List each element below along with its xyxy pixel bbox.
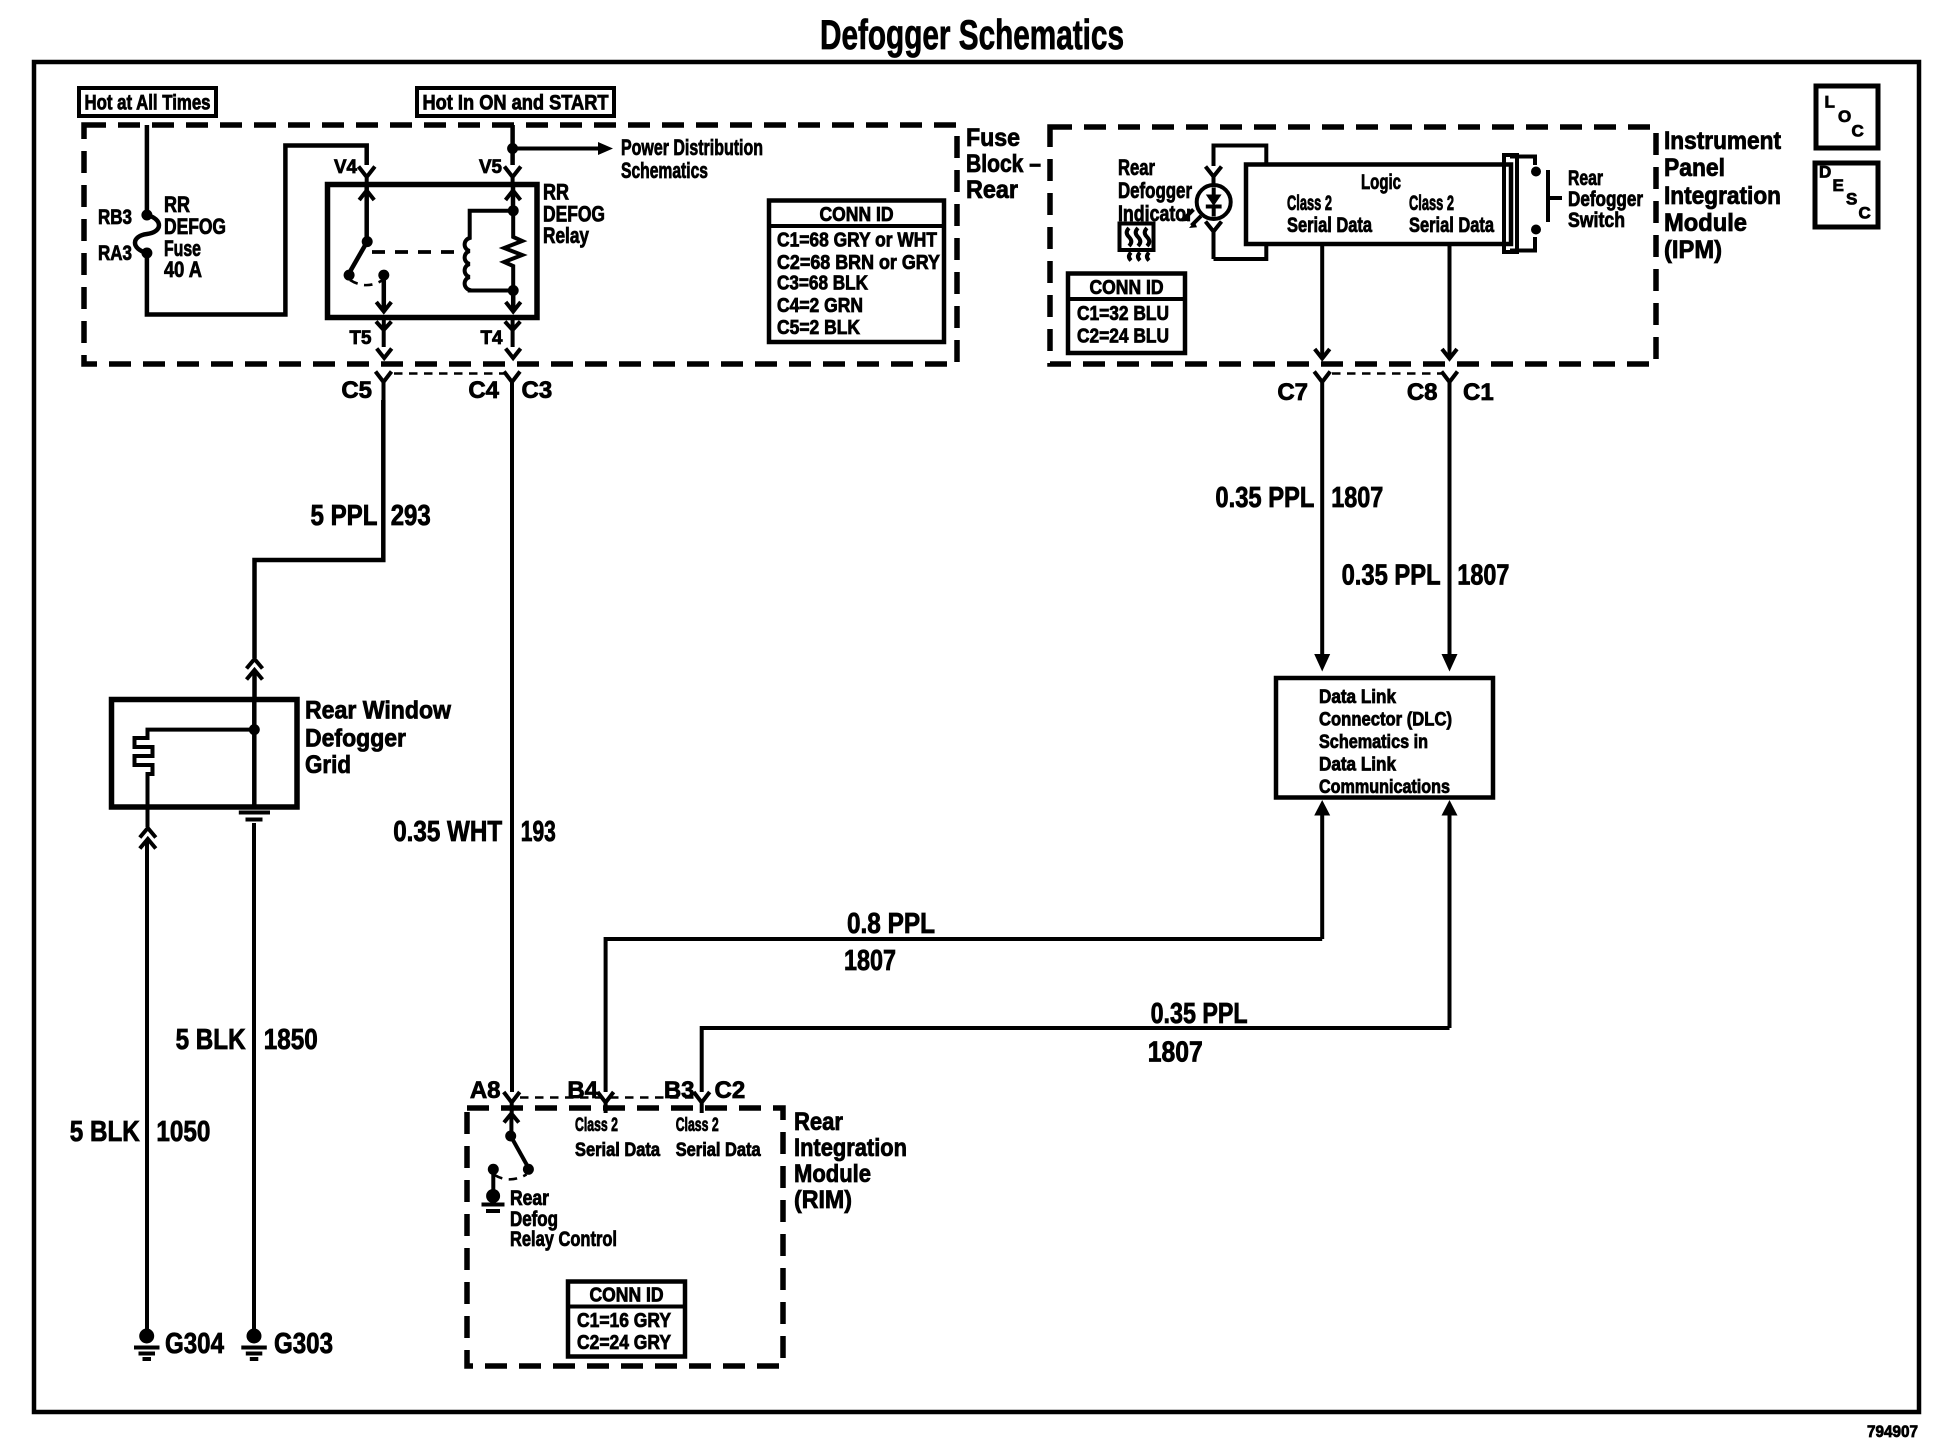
wire LED branch bottom xyxy=(1214,245,1267,259)
wire ignition feed V5 xyxy=(510,125,515,165)
inline connector on 5 BLK 1050 wire xyxy=(140,828,156,849)
fuse RR DEFOG 40 A xyxy=(135,215,159,253)
svg-text:Serial Data: Serial Data xyxy=(676,1140,761,1161)
svg-text:S: S xyxy=(1846,190,1857,209)
label Fuse Block - Rear xyxy=(966,124,1041,204)
connector A8 xyxy=(470,1077,520,1113)
svg-text:Serial Data: Serial Data xyxy=(1287,214,1372,237)
svg-text:Rear: Rear xyxy=(1118,155,1155,180)
label 0.35 PPL 1807 (mid) xyxy=(1342,560,1510,592)
ground G304 xyxy=(134,1328,224,1360)
svg-text:1807: 1807 xyxy=(1148,1037,1203,1069)
svg-text:L: L xyxy=(1825,93,1835,112)
node RA3 xyxy=(141,248,152,259)
label 0.8 PPL 1807 xyxy=(844,908,935,977)
connector B3 / C2 xyxy=(664,1077,745,1113)
wire grid to inline connector xyxy=(146,807,150,827)
label Rear Defogger Indicator xyxy=(1118,155,1193,226)
svg-text:A8: A8 xyxy=(470,1077,501,1104)
svg-text:Logic: Logic xyxy=(1361,171,1401,194)
label Class 2 Serial Data (RIM right) xyxy=(676,1115,761,1161)
label Power Distribution Schematics xyxy=(621,135,763,183)
svg-text:0.8 PPL: 0.8 PPL xyxy=(847,908,935,940)
svg-text:Rear Window: Rear Window xyxy=(305,697,452,725)
svg-text:C: C xyxy=(1852,122,1864,141)
DESC reference box xyxy=(1815,163,1878,228)
svg-text:G304: G304 xyxy=(165,1328,224,1360)
svg-text:Integration: Integration xyxy=(1664,182,1781,210)
svg-text:C5=2 BLK: C5=2 BLK xyxy=(777,317,860,339)
svg-text:C1=16 GRY: C1=16 GRY xyxy=(577,1310,672,1332)
svg-text:O: O xyxy=(1838,107,1851,126)
svg-text:293: 293 xyxy=(391,500,431,532)
label 5 PPL 293 xyxy=(311,500,431,532)
grid element xyxy=(135,699,260,807)
svg-text:Data Link: Data Link xyxy=(1319,687,1396,708)
CONN ID table (fuse block) xyxy=(769,201,944,343)
connector link A8-B4-B3 (dashed) xyxy=(520,1096,694,1099)
svg-text:C2=24 GRY: C2=24 GRY xyxy=(577,1332,672,1354)
Instrument Panel Integration Module (IPM) dashed enclosure xyxy=(1050,127,1656,364)
relay resistor xyxy=(504,211,522,291)
node relay coil top xyxy=(508,205,519,216)
connector link C5-C4 (dashed) xyxy=(394,372,504,375)
label Rear Integration Module (RIM) xyxy=(794,1108,907,1214)
svg-text:Grid: Grid xyxy=(305,751,351,779)
svg-text:C: C xyxy=(1859,204,1871,223)
RIM rear defog relay control driver xyxy=(488,1114,534,1180)
svg-text:E: E xyxy=(1833,176,1844,195)
svg-text:C1=68 GRY or WHT: C1=68 GRY or WHT xyxy=(777,230,937,252)
wire 5 BLK 1850 (grid to G303) xyxy=(252,823,256,1330)
inline connector on 5 PPL wire xyxy=(247,659,263,699)
pin V4 xyxy=(334,157,375,185)
relay coil xyxy=(465,211,514,291)
svg-text:Relay Control: Relay Control xyxy=(510,1228,617,1251)
svg-text:Class 2: Class 2 xyxy=(1409,192,1454,215)
wire 0.35 PPL riser into DLC xyxy=(1442,800,1458,1028)
svg-text:C1: C1 xyxy=(1463,379,1494,406)
pin V5 xyxy=(479,157,521,185)
CONN ID table (RIM) xyxy=(568,1282,685,1357)
relay label RR DEFOG Relay xyxy=(543,180,605,249)
svg-text:RA3: RA3 xyxy=(98,242,132,265)
connector C5 xyxy=(341,372,391,405)
svg-text:Rear: Rear xyxy=(1568,167,1603,190)
svg-text:(RIM): (RIM) xyxy=(794,1186,852,1214)
svg-text:794907: 794907 xyxy=(1867,1422,1918,1441)
svg-text:Rear: Rear xyxy=(794,1108,843,1136)
svg-text:Rear: Rear xyxy=(510,1187,549,1210)
connector C7 xyxy=(1277,372,1330,407)
wire 0.35 PPL 1807 (C2 to DLC) xyxy=(702,1028,1450,1092)
label Hot at All Times xyxy=(79,88,216,116)
svg-text:Communications: Communications xyxy=(1319,777,1450,798)
wire LED branch top xyxy=(1214,146,1267,167)
svg-text:C1=32 BLU: C1=32 BLU xyxy=(1077,303,1169,325)
pin T4 xyxy=(481,318,521,359)
rear defogger switch lever xyxy=(1548,170,1562,222)
RIM internal ground xyxy=(482,1169,505,1211)
svg-text:Defogger: Defogger xyxy=(305,725,406,753)
svg-text:T5: T5 xyxy=(350,328,372,349)
svg-text:CONN ID: CONN ID xyxy=(820,204,894,226)
svg-text:C2: C2 xyxy=(715,1077,746,1104)
LOC reference box xyxy=(1816,86,1878,148)
connector C4 / C3 xyxy=(468,372,552,405)
svg-text:B4: B4 xyxy=(567,1077,598,1104)
svg-text:0.35 PPL: 0.35 PPL xyxy=(1151,998,1248,1030)
svg-text:Integration: Integration xyxy=(794,1134,907,1162)
wire class 2 serial data left pin xyxy=(1315,244,1330,359)
connector pin below LED xyxy=(1206,222,1222,260)
svg-text:0.35 PPL: 0.35 PPL xyxy=(1342,560,1441,592)
label Rear Window Defogger Grid xyxy=(305,697,452,780)
svg-text:Connector (DLC): Connector (DLC) xyxy=(1319,710,1452,731)
label 0.35 WHT 193 xyxy=(393,816,556,848)
logic box U1 xyxy=(1246,165,1511,245)
svg-text:Schematics in: Schematics in xyxy=(1319,732,1428,753)
CONN ID table (IPM) xyxy=(1068,274,1185,354)
svg-text:1807: 1807 xyxy=(1331,482,1383,514)
rear defogger switch connector xyxy=(1504,155,1541,252)
svg-text:1807: 1807 xyxy=(1457,560,1509,592)
svg-text:C2=68 BRN or GRY: C2=68 BRN or GRY xyxy=(777,252,941,274)
wire 0.35 PPL 1807 (C7 to DLC) xyxy=(1314,400,1330,672)
relay RR DEFOG box xyxy=(328,185,538,318)
svg-text:0.35 PPL: 0.35 PPL xyxy=(1215,482,1314,514)
grid ground tab xyxy=(239,813,270,820)
svg-text:Defogger: Defogger xyxy=(1568,188,1643,211)
svg-text:Class 2: Class 2 xyxy=(575,1115,618,1136)
svg-text:1850: 1850 xyxy=(264,1024,318,1056)
svg-text:1050: 1050 xyxy=(156,1116,210,1148)
label Rear Defogger Switch xyxy=(1568,167,1643,232)
svg-text:D: D xyxy=(1819,163,1831,182)
connector pin above LED xyxy=(1206,167,1222,186)
wire class 2 serial data right pin xyxy=(1442,244,1457,359)
svg-text:T4: T4 xyxy=(481,328,503,349)
wire 0.35 PPL 1807 (C8 to DLC) xyxy=(1442,400,1458,672)
svg-text:Module: Module xyxy=(794,1160,871,1188)
svg-text:Hot at All Times: Hot at All Times xyxy=(85,92,211,115)
svg-text:C4=2 GRN: C4=2 GRN xyxy=(777,295,863,317)
svg-text:Switch: Switch xyxy=(1568,209,1625,232)
svg-text:5 PPL: 5 PPL xyxy=(311,500,378,532)
label Instrument Panel Integration Module (IPM) xyxy=(1664,127,1782,264)
svg-text:B3: B3 xyxy=(664,1077,695,1104)
data link connector DLC box xyxy=(1276,678,1493,798)
svg-text:Schematics: Schematics xyxy=(621,158,708,183)
relay pin T4 internal xyxy=(506,291,521,312)
svg-text:C3: C3 xyxy=(522,377,553,404)
svg-text:Power Distribution: Power Distribution xyxy=(621,135,763,160)
LED indicator U-lamp xyxy=(1197,185,1231,219)
relay switch arm xyxy=(344,186,392,312)
svg-text:Instrument: Instrument xyxy=(1664,127,1782,155)
svg-text:Defogger Schematics: Defogger Schematics xyxy=(820,11,1124,58)
svg-text:C8: C8 xyxy=(1407,379,1438,406)
svg-text:V5: V5 xyxy=(479,157,502,178)
svg-text:C2=24 BLU: C2=24 BLU xyxy=(1077,326,1169,348)
fuse value label RR DEFOG Fuse 40 A xyxy=(164,192,226,282)
svg-text:Serial Data: Serial Data xyxy=(1409,214,1494,237)
svg-text:(IPM): (IPM) xyxy=(1664,236,1722,264)
wire 5 PPL 293 (C5 to grid) xyxy=(255,400,384,658)
ground G303 xyxy=(241,1328,333,1360)
svg-text:CONN ID: CONN ID xyxy=(1090,277,1164,299)
svg-text:C4: C4 xyxy=(468,377,499,404)
svg-text:Module: Module xyxy=(1664,209,1747,237)
Fuse Block - Rear dashed enclosure xyxy=(84,125,957,364)
node RB3 xyxy=(141,210,152,221)
wire to power distribution schematics xyxy=(513,147,598,151)
svg-text:Class 2: Class 2 xyxy=(676,1115,719,1136)
wire 0.8 PPL 1807 (B4 to DLC) xyxy=(606,939,1323,1092)
label Class 2 Serial Data (right) xyxy=(1409,192,1494,237)
wire fuse RA3 to relay pin V4 xyxy=(147,146,367,315)
rear window defogger grid box xyxy=(112,700,298,808)
svg-text:Defogger: Defogger xyxy=(1118,178,1192,203)
connector B4 xyxy=(567,1077,613,1113)
svg-text:40 A: 40 A xyxy=(164,257,202,282)
svg-text:G303: G303 xyxy=(274,1328,333,1360)
wire 5 BLK 1050 (to G304) xyxy=(145,841,149,1330)
connector C8 / C1 xyxy=(1407,372,1494,407)
wire 0.35 WHT 193 (C3 to A8) xyxy=(510,400,514,1092)
svg-text:Class 2: Class 2 xyxy=(1287,192,1332,215)
svg-text:0.35 WHT: 0.35 WHT xyxy=(393,816,502,848)
svg-text:Serial Data: Serial Data xyxy=(575,1140,660,1161)
svg-text:Relay: Relay xyxy=(543,223,590,248)
label Class 2 Serial Data (left) xyxy=(1287,192,1372,237)
wire hot-at-all-times feed to fuse xyxy=(145,125,150,212)
svg-text:Rear: Rear xyxy=(966,176,1018,204)
svg-text:C7: C7 xyxy=(1277,379,1308,406)
svg-text:193: 193 xyxy=(521,816,556,848)
svg-text:Panel: Panel xyxy=(1664,154,1725,182)
pin T5 xyxy=(350,318,392,359)
svg-text:V4: V4 xyxy=(334,157,357,178)
svg-text:RB3: RB3 xyxy=(98,206,132,229)
svg-text:5 BLK: 5 BLK xyxy=(176,1024,246,1056)
wire 0.8 PPL riser into DLC xyxy=(1314,800,1330,939)
svg-text:C3=68 BLK: C3=68 BLK xyxy=(777,273,868,295)
svg-text:Hot In ON and START: Hot In ON and START xyxy=(423,92,609,115)
svg-text:Data Link: Data Link xyxy=(1319,755,1396,776)
relay mechanical link (dashed) xyxy=(372,250,455,254)
LED light arrows xyxy=(1182,210,1202,229)
svg-text:5 BLK: 5 BLK xyxy=(70,1116,140,1148)
relay pin V5 internal xyxy=(506,186,521,211)
Rear Integration Module (RIM) dashed enclosure xyxy=(467,1108,783,1366)
label Class 2 Serial Data (RIM left) xyxy=(575,1115,660,1161)
label 0.35 PPL 1807 (upper) xyxy=(1215,482,1383,514)
node power distribution tap xyxy=(507,143,518,154)
connector link C7-C8 (dashed) xyxy=(1332,372,1442,375)
node relay coil bottom xyxy=(508,285,519,296)
label 5 BLK 1850 xyxy=(176,1024,318,1056)
svg-text:Block –: Block – xyxy=(966,150,1041,178)
rear defrost indicator icon xyxy=(1120,224,1154,261)
label 5 BLK 1050 xyxy=(70,1116,211,1148)
svg-text:Fuse: Fuse xyxy=(966,124,1020,152)
label Rear Defog Relay Control xyxy=(510,1187,617,1251)
svg-text:C5: C5 xyxy=(341,377,372,404)
svg-text:1807: 1807 xyxy=(844,945,896,977)
label Hot In ON and START xyxy=(417,88,614,116)
svg-text:CONN ID: CONN ID xyxy=(590,1285,664,1307)
label 0.35 PPL 1807 (lower) xyxy=(1148,998,1248,1069)
